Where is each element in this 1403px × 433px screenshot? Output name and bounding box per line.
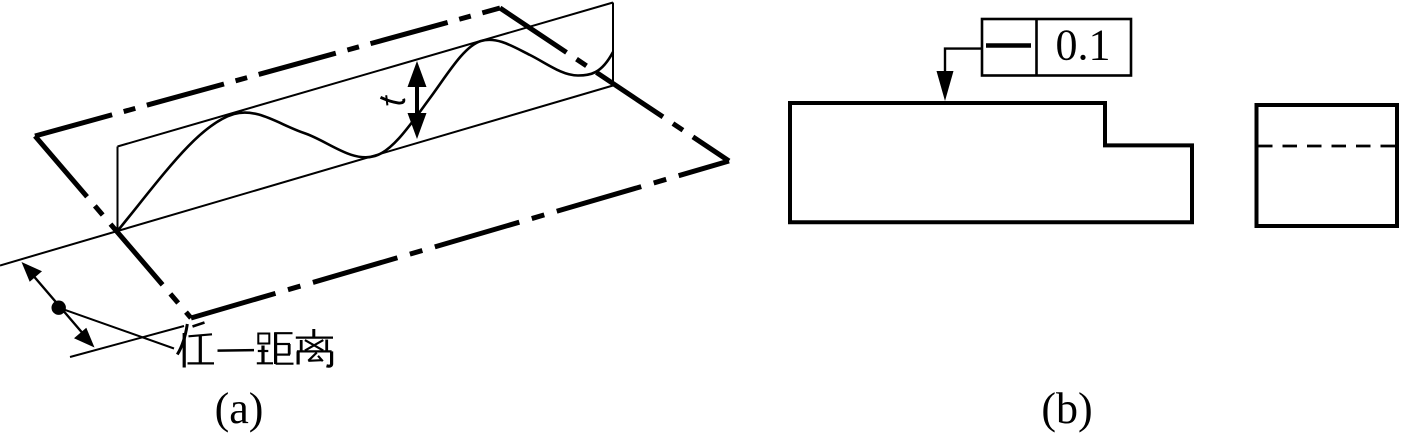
straightness symbol bbox=[986, 43, 1031, 48]
text 任一距离 drawn as strokes bbox=[177, 323, 333, 368]
dash-dot plane: bottom edge bbox=[191, 161, 729, 318]
dash-dot plane: right edge bbox=[500, 8, 729, 161]
hidden dashed line bbox=[1258, 145, 1397, 148]
任 bbox=[177, 324, 187, 355]
dash-dot plane: top edge bbox=[35, 8, 500, 136]
wavy actual-surface curve bbox=[118, 40, 614, 231]
part outline (front view) bbox=[790, 103, 1192, 222]
t dimension double arrow bbox=[408, 61, 427, 139]
leader line to text bbox=[59, 308, 174, 349]
svg-text:0.1: 0.1 bbox=[1056, 21, 1111, 70]
any-distance double arrow bbox=[22, 262, 95, 348]
leader arrowhead bbox=[937, 71, 954, 101]
vertical tolerance band: left edge bbox=[117, 147, 119, 232]
lower parallel line (any-distance offset) bbox=[70, 326, 184, 357]
leader line bbox=[945, 49, 982, 75]
feature control frame bbox=[982, 19, 1131, 76]
距 bbox=[258, 334, 269, 344]
svg-text:(b): (b) bbox=[1041, 384, 1092, 433]
一 bbox=[218, 349, 255, 352]
vertical tolerance band: bottom edge + extension to lower-left bbox=[0, 86, 613, 266]
dash-dot plane: left edge bbox=[35, 136, 191, 318]
离 bbox=[312, 329, 315, 338]
point marker dot bbox=[52, 301, 66, 315]
vertical tolerance band: top edge bbox=[118, 3, 614, 147]
svg-text:(a): (a) bbox=[215, 384, 264, 433]
vertical tolerance band: right edge bbox=[612, 3, 614, 86]
side view rectangle bbox=[1257, 105, 1398, 226]
label t (italic, rotated along arrow) bbox=[381, 95, 404, 105]
